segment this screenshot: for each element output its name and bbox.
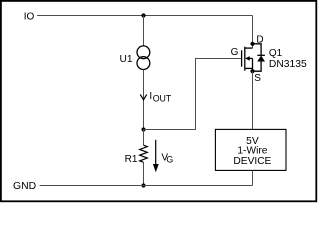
svg-text:OUT: OUT [153, 93, 172, 103]
channel bar [244, 47, 246, 71]
wire IO rail [37, 15, 253, 17]
arrowhead IOUT (open chevron) [140, 94, 146, 99]
svg-text:Q1: Q1 [269, 48, 283, 59]
wire from IO rail down to U1 [143, 16, 145, 46]
junction dot drain [250, 42, 254, 46]
wire drain: IO rail corner down to MOSFET [252, 16, 254, 49]
gate bar [241, 50, 243, 66]
svg-text:G: G [166, 154, 173, 164]
body stub [246, 57, 253, 59]
svg-text:U1: U1 [120, 54, 133, 65]
wire node to resistor [143, 130, 145, 146]
junction node (gate/R1) [141, 127, 145, 131]
svg-text:G: G [231, 47, 239, 58]
svg-text:S: S [254, 73, 261, 84]
cathode bar [257, 54, 265, 56]
source stub [245, 67, 253, 69]
MOSFET body arrow [245, 56, 249, 61]
svg-text:1-Wire: 1-Wire [237, 145, 267, 156]
junction dot on GND rail [141, 183, 145, 187]
wire gate: node to MOSFET gate [144, 59, 241, 130]
body diode of Q1 [253, 44, 265, 71]
wire GND rail [40, 185, 253, 187]
svg-text:IO: IO [24, 11, 35, 22]
svg-text:DEVICE: DEVICE [233, 156, 271, 167]
diode triangle (pointing up) [257, 56, 265, 62]
wire from U1 down to node [143, 70, 145, 130]
svg-text:GND: GND [13, 181, 36, 192]
transistor Q1 (N-channel MOSFET) [242, 47, 253, 71]
wire resistor to GND rail [143, 162, 145, 185]
arrow VG (down, filled head) [155, 140, 157, 164]
wire source down to device box [252, 71, 254, 129]
body-source vertical [252, 58, 254, 71]
wire device box to GND rail [252, 170, 254, 185]
svg-text:R1: R1 [125, 154, 138, 165]
svg-text:DN3135: DN3135 [269, 59, 307, 70]
current source U1 [137, 46, 150, 70]
5V 1-Wire DEVICE box [215, 129, 286, 170]
resistor R1 zigzag [140, 145, 148, 162]
junction dot on IO rail [141, 13, 145, 17]
junction dot source [250, 69, 254, 73]
drain stub [245, 47, 253, 49]
